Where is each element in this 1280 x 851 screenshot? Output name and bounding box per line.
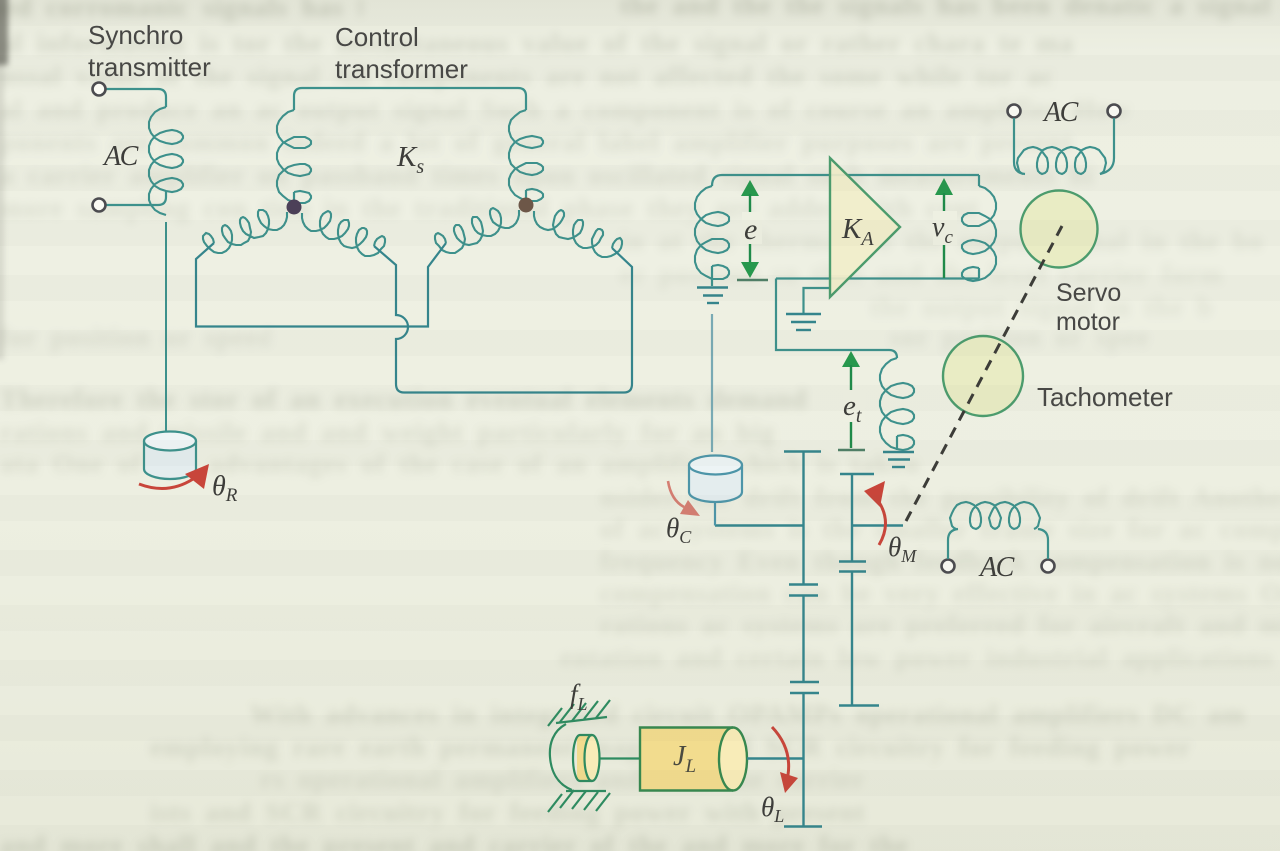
svg-text:Synchro: Synchro — [88, 20, 183, 50]
wire — [106, 89, 166, 107]
inductor (transmitter stator S3 right) — [302, 211, 385, 256]
shaft (load to gear 1) — [747, 757, 804, 759]
rotation arrow theta_C — [668, 481, 684, 507]
inductor (CT stator S2) — [509, 110, 543, 201]
inductor (CT stator S1 left) — [435, 208, 519, 253]
dial theta_C (feedback shaft) — [689, 456, 742, 503]
gear shaft 2 lower segment — [851, 572, 853, 706]
wire — [711, 266, 713, 286]
inductor (motor control winding) — [978, 175, 980, 186]
wire (theta_M motor shaft link) — [852, 524, 903, 526]
wire — [293, 192, 295, 203]
inductor (motor reference winding) — [1017, 147, 1106, 174]
shaft (transmitter rotor to dial) — [165, 222, 167, 434]
svg-text:e: e — [744, 213, 757, 246]
inductor (synchro transmitter rotor winding) — [149, 107, 183, 215]
rotation arrow theta_R — [139, 479, 193, 488]
gear mesh 2 — [790, 681, 819, 683]
svg-text:θL: θL — [761, 792, 784, 826]
svg-text:AC: AC — [978, 552, 1015, 583]
ground (tachometer winding) — [883, 452, 914, 467]
voltage arrow et — [838, 351, 865, 450]
inductor (CT rotor) — [695, 186, 729, 279]
svg-text:motor: motor — [1056, 308, 1120, 336]
wire (S2 top link) — [294, 88, 526, 110]
AC terminal (tach right) — [1042, 560, 1055, 573]
svg-text:transmitter: transmitter — [88, 52, 211, 82]
wire — [525, 190, 527, 201]
svg-text:Servo: Servo — [1056, 279, 1121, 307]
svg-text:AC: AC — [1042, 97, 1079, 128]
gear shaft 2 upper segment — [851, 474, 853, 562]
shaft (CT rotor to dial theta_C) — [711, 314, 713, 452]
ground (CT rotor) — [697, 288, 728, 304]
wire (S1 link) — [196, 243, 446, 327]
svg-text:Control: Control — [335, 22, 419, 52]
wire — [1014, 118, 1025, 174]
wire — [1038, 529, 1048, 559]
svg-text:fL: fL — [570, 679, 588, 714]
svg-text:transformer: transformer — [335, 54, 468, 84]
wire — [106, 191, 166, 205]
wire (tach output rail) — [776, 279, 897, 359]
svg-text:AC: AC — [102, 141, 139, 172]
wire (error rail top) — [712, 175, 979, 186]
node label e — [742, 212, 762, 244]
ground (amplifier) — [786, 314, 821, 330]
gear shaft 1 top cap — [784, 450, 821, 452]
gear shaft 1 lower segment — [802, 693, 804, 826]
voltage arrow vc — [935, 178, 953, 278]
friction fL hatched wall — [548, 700, 610, 812]
dial theta_R (input shaft) — [144, 432, 196, 480]
inductor (transmitter stator S2) — [277, 110, 311, 203]
wire — [1100, 118, 1114, 174]
inductor (tachometer reference winding) — [950, 502, 1040, 529]
wire (bottom rail) — [776, 277, 979, 279]
svg-text:θC: θC — [666, 513, 692, 547]
svg-text:Tachometer: Tachometer — [1037, 382, 1173, 412]
shaft (motor to gears, dashed) — [906, 226, 1062, 521]
rotation arrow theta_L — [772, 727, 789, 775]
friction piston — [573, 735, 600, 781]
inductor (tachometer output winding) — [880, 358, 914, 450]
wire (theta_C takeoff) — [715, 524, 804, 526]
wire (S3 link with hop) — [374, 246, 632, 393]
wire — [948, 529, 958, 559]
load inertia JL — [640, 728, 747, 791]
voltage arrow e — [737, 180, 768, 280]
AC terminal (transmitter top) — [93, 83, 106, 96]
gear mesh 1 — [789, 583, 818, 585]
svg-text:θM: θM — [888, 532, 917, 566]
gear shaft 1 upper segment — [802, 452, 804, 585]
gear shaft 1 middle segment — [802, 596, 804, 683]
op-amp KA (servo amplifier) — [830, 158, 900, 297]
rotation arrow theta_M — [879, 502, 886, 545]
junction (CT neutral) — [519, 198, 534, 213]
AC terminal (transmitter bottom) — [93, 199, 106, 212]
AC terminal (tach left) — [942, 560, 955, 573]
AC terminal (motor left) — [1008, 105, 1021, 118]
gear shaft 2 bottom cap — [839, 704, 879, 706]
wire (to summing ground) — [804, 288, 832, 313]
svg-text:θR: θR — [212, 471, 238, 506]
tachometer T1 — [943, 336, 1023, 416]
gear shaft 2 top cap — [840, 473, 874, 475]
inductor (transmitter stator S1 left) — [203, 210, 287, 253]
gear shaft 1 bottom cap — [784, 825, 822, 827]
inductor (CT stator S3 right) — [534, 210, 622, 257]
AC terminal (motor right) — [1108, 105, 1121, 118]
gear mesh 3 — [839, 560, 866, 562]
servo motor M1 — [1021, 191, 1098, 268]
shaft (piston to load) — [599, 757, 640, 759]
svg-text:Ks: Ks — [396, 141, 424, 178]
junction (transmitter neutral) — [287, 200, 302, 215]
